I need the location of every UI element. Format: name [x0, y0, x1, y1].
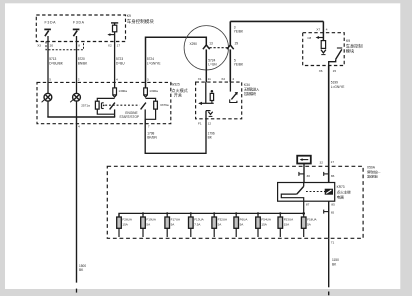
- sensing element in K9 right: [321, 41, 326, 55]
- svg-text:F1: F1: [198, 122, 202, 126]
- svg-text:17: 17: [117, 43, 121, 47]
- connector X290 terminal chevrons and dashed mate: [203, 45, 234, 49]
- svg-text:点火主继: 点火主继: [337, 190, 352, 195]
- svg-text:11: 11: [208, 77, 211, 81]
- terminal tick pin 86: [324, 172, 329, 176]
- svg-text:20: 20: [50, 43, 54, 47]
- svg-text:F19UA: F19UA: [146, 218, 156, 222]
- module K9 body control module (top-left box): [36, 15, 125, 42]
- connector sub-outline under K9 pins 20/8: [46, 42, 84, 50]
- svg-text:KR73: KR73: [337, 185, 345, 189]
- W325 labels: [78, 83, 188, 129]
- svg-text:5713: 5713: [49, 57, 56, 61]
- wire 5720: [76, 42, 78, 94]
- svg-text:L=GN/YE: L=GN/YE: [331, 85, 345, 89]
- svg-text:W325: W325: [171, 83, 180, 87]
- X290 labels: [190, 25, 244, 66]
- svg-text:17: 17: [331, 160, 335, 164]
- wire 5713: [47, 42, 49, 94]
- svg-text:YE/BK: YE/BK: [234, 63, 244, 67]
- svg-text:控制模块: 控制模块: [244, 91, 257, 96]
- svg-text:5723: 5723: [116, 57, 123, 61]
- svg-text:3: 3: [147, 78, 149, 82]
- wire 5724 to connector X290: [146, 37, 207, 88]
- fuse box X50A outline: [107, 166, 363, 238]
- fuse F54UA 15A: [256, 212, 272, 237]
- wire relay 85 to ground 1150: [324, 201, 329, 238]
- fuses row in X50A: [117, 212, 318, 237]
- svg-text:13: 13: [209, 42, 213, 46]
- wire into pin X7/4: [322, 21, 324, 40]
- K34 driver to ground output: [206, 111, 213, 117]
- wire top horizontal to K9 right fragment: [230, 20, 323, 22]
- svg-text:保险丝盒—: 保险丝盒—: [367, 169, 382, 174]
- lamp 1: [42, 93, 52, 102]
- wire labels 5713/5720/5723/5724: [49, 57, 160, 65]
- wire YE/BK vertical through X290 right side: [229, 21, 231, 82]
- switch left with resistor 2571a: [95, 98, 139, 117]
- svg-text:4: 4: [326, 27, 328, 31]
- relay KR73 box: [278, 183, 335, 202]
- svg-text:电器: 电器: [337, 195, 345, 200]
- svg-text:1798: 1798: [147, 131, 154, 135]
- svg-text:8: 8: [78, 43, 80, 47]
- wire 5199 long vertical: [328, 66, 330, 183]
- fuse F18UA 5A: [301, 212, 317, 237]
- svg-text:12: 12: [208, 122, 212, 126]
- svg-text:2: 2: [78, 78, 80, 82]
- terminal tick pin 30: [299, 172, 304, 176]
- circuit breaker in K9 with page arrow: [107, 23, 118, 42]
- svg-text:D=BU/BK: D=BU/BK: [49, 62, 64, 66]
- svg-text:X1: X1: [198, 77, 202, 81]
- K34 labels: [198, 77, 260, 126]
- svg-text:1390a: 1390a: [149, 89, 158, 93]
- fuse F17UA 5A: [165, 212, 181, 237]
- svg-text:F32UA: F32UA: [218, 218, 228, 222]
- fuse F13UA 7.5A: [189, 212, 205, 237]
- svg-text:车身控制模块: 车身控制模块: [127, 18, 154, 25]
- svg-text:F3DA: F3DA: [45, 20, 57, 24]
- W325 bottom bus: [47, 116, 115, 118]
- svg-text:开关: 开关: [174, 92, 182, 98]
- svg-text:L=GN: L=GN: [208, 63, 217, 67]
- module K34 keyless entry box: [196, 82, 242, 119]
- svg-text:7.5A: 7.5A: [194, 222, 201, 226]
- lamp 2: [70, 93, 80, 102]
- svg-text:BN/BK: BN/BK: [78, 62, 88, 66]
- svg-text:X7: X7: [316, 27, 320, 31]
- svg-text:71: 71: [331, 241, 335, 245]
- svg-text:BK/BN: BK/BN: [147, 136, 157, 140]
- svg-text:15: 15: [333, 69, 337, 73]
- fuse bus: [119, 213, 304, 217]
- svg-text:2571a: 2571a: [81, 104, 90, 108]
- switch in K9 right: [329, 48, 343, 66]
- svg-text:X3: X3: [37, 43, 41, 47]
- svg-text:模块: 模块: [346, 47, 355, 54]
- wire 1798 1796 labels: [147, 131, 215, 139]
- svg-text:F18UA: F18UA: [307, 218, 317, 222]
- svg-text:F54UA: F54UA: [261, 218, 271, 222]
- svg-text:F3DA: F3DA: [73, 20, 85, 24]
- svg-text:5199: 5199: [331, 81, 338, 85]
- svg-text:D=BU: D=BU: [116, 62, 125, 66]
- svg-text:3379a: 3379a: [160, 103, 169, 107]
- wire 5199 labels: [331, 81, 345, 89]
- resistor 1390a on wire 5723: [113, 88, 117, 97]
- wire splice to relay pin 30: [303, 164, 305, 183]
- wire 1150 below fuse box: [328, 238, 330, 295]
- svg-text:65: 65: [331, 210, 335, 214]
- svg-text:32: 32: [320, 160, 324, 164]
- fuse F19UA 5A: [141, 212, 157, 237]
- svg-text:发动机舱: 发动机舱: [367, 174, 378, 179]
- resistor 1390a on wire 5724: [144, 88, 148, 97]
- svg-text:85: 85: [331, 203, 335, 207]
- relay and fuse box labels: [306, 160, 382, 245]
- connector X290 circle: [184, 26, 228, 70]
- svg-text:START/STOP: START/STOP: [119, 115, 139, 119]
- fuse F3DA #1: [44, 29, 51, 41]
- junction dot relay 87 to fuse bus: [302, 212, 305, 215]
- svg-text:YE/BK: YE/BK: [234, 30, 244, 34]
- svg-text:F53UA: F53UA: [284, 218, 294, 222]
- svg-text:4: 4: [116, 78, 118, 82]
- svg-text:无钥匙进入: 无钥匙进入: [244, 87, 260, 92]
- svg-text:87: 87: [306, 203, 310, 207]
- fuse F53UA 15A: [278, 212, 294, 237]
- lamp wires to bus: [48, 101, 77, 117]
- ground wire labels: [79, 258, 339, 272]
- svg-text:X6: X6: [319, 69, 323, 73]
- svg-text:X50A: X50A: [367, 165, 376, 169]
- svg-text:K9: K9: [127, 14, 131, 18]
- svg-text:F26UA: F26UA: [122, 218, 132, 222]
- labels module K9 left: [45, 14, 155, 25]
- svg-text:F17UA: F17UA: [171, 218, 181, 222]
- svg-text:7: 7: [148, 125, 150, 129]
- svg-text:F6UA: F6UA: [240, 218, 249, 222]
- svg-text:X2: X2: [108, 43, 112, 47]
- relay KR73 contacts: [281, 183, 303, 214]
- labels module K9 right: [307, 27, 362, 73]
- relay KR73 coil: [306, 189, 333, 194]
- svg-text:1500: 1500: [79, 264, 86, 268]
- svg-text:5724: 5724: [147, 57, 154, 61]
- svg-text:1390a: 1390a: [118, 89, 127, 93]
- wire 5724 L=GN down to K34: [205, 49, 207, 82]
- svg-text:X290: X290: [190, 42, 198, 46]
- splice pack marker box: [297, 156, 311, 164]
- svg-text:K34: K34: [244, 83, 250, 87]
- svg-text:L=GN/YE: L=GN/YE: [147, 62, 161, 66]
- wire 5723: [114, 42, 116, 88]
- svg-text:5: 5: [49, 78, 51, 82]
- svg-text:4: 4: [232, 77, 234, 81]
- svg-text:1150: 1150: [332, 258, 339, 262]
- wire 1798 / 1796 link: [145, 111, 206, 154]
- module W325 ignition mode switch box: [37, 82, 171, 123]
- page arrow inside K9 right: [316, 36, 324, 39]
- svg-text:1796: 1796: [208, 131, 215, 135]
- svg-text:86: 86: [331, 174, 335, 178]
- pin labels under K9 left: [37, 43, 120, 47]
- svg-text:5720: 5720: [78, 57, 85, 61]
- wire 1500 ground: [76, 117, 78, 293]
- svg-text:29: 29: [235, 42, 239, 46]
- svg-text:C8: C8: [307, 36, 311, 40]
- K34 switch: [230, 82, 238, 102]
- svg-text:F13UA: F13UA: [194, 218, 204, 222]
- fuse F3DA #2: [73, 29, 80, 41]
- module K9 body control module (top-right box): [303, 33, 345, 66]
- svg-text:X2: X2: [221, 77, 225, 81]
- K34 input with page arrow: [198, 82, 214, 105]
- svg-text:30: 30: [307, 174, 311, 178]
- fuse F6UA 5A: [234, 212, 248, 237]
- fuse F32UA 5A: [212, 212, 228, 237]
- fuse F26UA 15A: [117, 213, 133, 237]
- pin numbers above W325: [49, 78, 149, 82]
- svg-text:4: 4: [78, 125, 80, 129]
- switch right with resistor 3379a: [141, 98, 158, 123]
